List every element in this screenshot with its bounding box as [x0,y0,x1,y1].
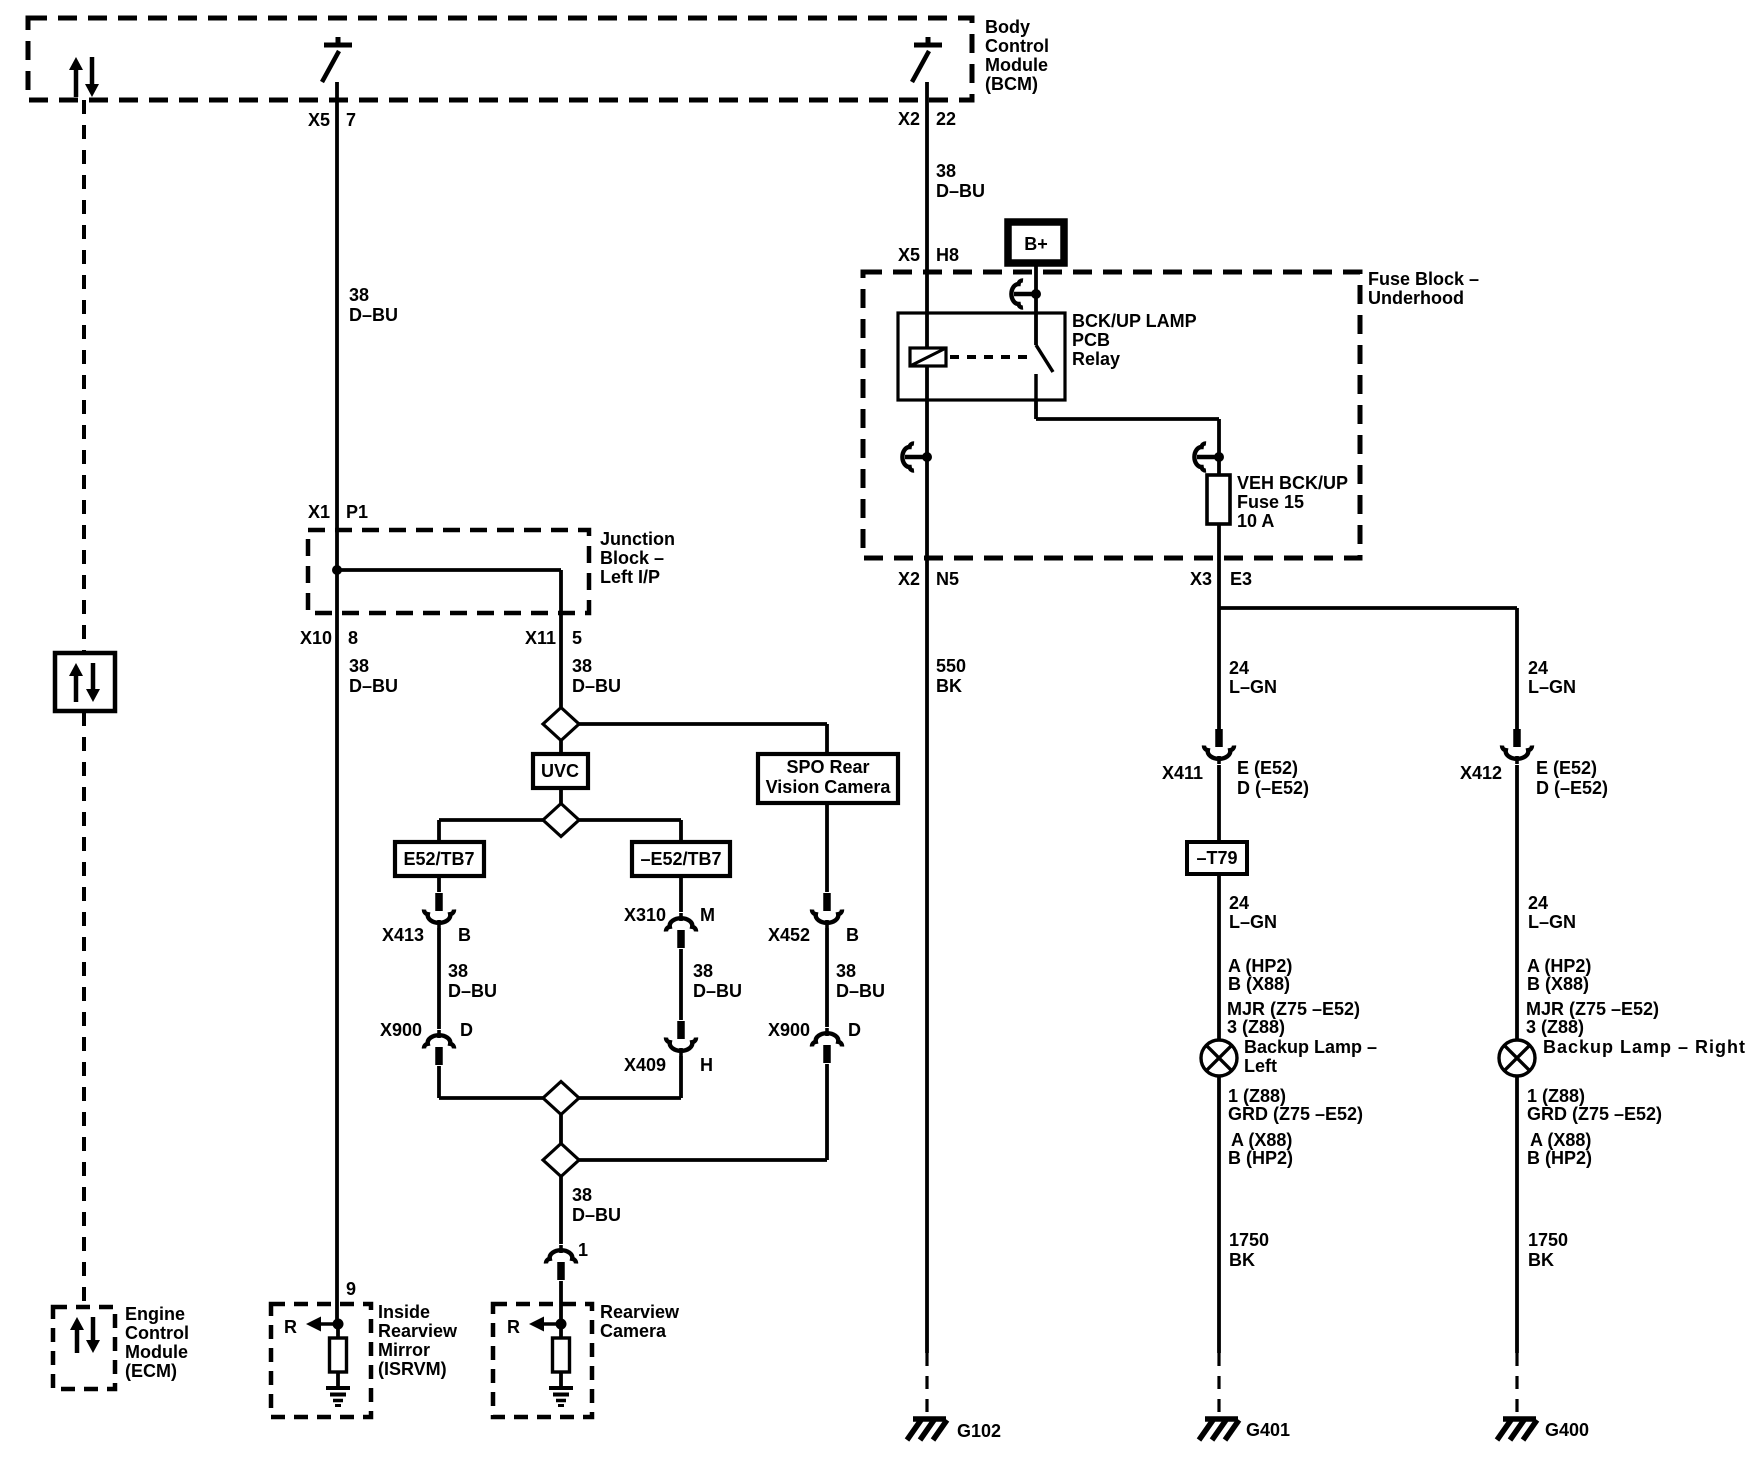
wire: X412 to right backup lamp [1515,765,1519,1040]
connector X411 [1204,729,1234,764]
wire: B+ into fuse block [1034,263,1038,345]
svg-text:D–BU: D–BU [836,981,885,1001]
svg-text:D–BU: D–BU [349,676,398,696]
svg-text:38: 38 [448,961,468,981]
pin label X900 | D (left) [380,1020,473,1040]
wire: S1 to UVC [559,740,563,754]
svg-text:BK: BK [1229,1250,1255,1270]
wire: left lamp to G401 [1217,1076,1221,1353]
svg-text:A (X88): A (X88) [1231,1130,1292,1150]
svg-text:B (X88): B (X88) [1527,974,1589,994]
svg-text:–E52/TB7: –E52/TB7 [640,849,721,869]
node: junction inside junction block [332,565,342,575]
label: Rearview Camera [600,1302,680,1341]
svg-text:Body: Body [985,17,1030,37]
svg-text:H: H [700,1055,713,1075]
switch: BCM driver (left, X5 pin 7) [322,37,352,82]
svg-text:SPO Rear: SPO Rear [786,757,869,777]
connector X412 [1502,729,1532,764]
svg-text:Camera: Camera [600,1321,667,1341]
wire: -T79 to left backup lamp [1217,874,1221,1040]
ground G400 [1497,1419,1537,1440]
svg-text:38: 38 [349,656,369,676]
wire label 24 L-GN (right lamp) [1528,658,1576,697]
svg-text:3 (Z88): 3 (Z88) [1526,1017,1584,1037]
svg-text:38: 38 [572,1185,592,1205]
svg-text:B+: B+ [1024,234,1048,254]
wire label 38 D-BU (X10 wire) [349,656,398,696]
svg-text:Inside: Inside [378,1302,430,1322]
svg-text:X2: X2 [898,109,920,129]
svg-text:3 (Z88): 3 (Z88) [1227,1017,1285,1037]
connector: relay output terminal to fuse 15 [1194,443,1224,470]
svg-text:L–GN: L–GN [1229,912,1277,932]
svg-text:X413: X413 [382,925,424,945]
svg-text:Underhood: Underhood [1368,288,1464,308]
label: Fuse Block - Underhood [1368,269,1479,308]
svg-text:Fuse 15: Fuse 15 [1237,492,1304,512]
pin labels A (HP2) B (X88) right [1527,956,1591,994]
arrow box on ECM link [55,653,115,711]
pin labels MJR (Z75 -E52) 3 (Z88) right [1526,999,1659,1037]
pin label X452 | B [768,925,859,945]
bidirectional arrows inside arrow box [69,663,100,702]
svg-text:550: 550 [936,656,966,676]
svg-text:GRD (Z75 –E52): GRD (Z75 –E52) [1527,1104,1662,1124]
svg-text:VEH BCK/UP: VEH BCK/UP [1237,473,1348,493]
relay coil-contact dashed link [950,355,1032,359]
svg-text:Control: Control [125,1323,189,1343]
svg-text:GRD (Z75 –E52): GRD (Z75 –E52) [1228,1104,1363,1124]
wire: X409 to splice S3 (right) [579,1056,681,1098]
wire: resistor to ground in camera [559,1372,563,1387]
svg-text:Rearview: Rearview [600,1302,680,1322]
svg-text:10 A: 10 A [1237,511,1274,531]
svg-text:Module: Module [125,1342,188,1362]
splice diamond S4 [543,1144,579,1177]
svg-text:B (X88): B (X88) [1228,974,1290,994]
pin labels A (X88) B (HP2) left [1228,1130,1293,1168]
svg-text:X10: X10 [300,628,332,648]
svg-text:E (E52): E (E52) [1237,758,1298,778]
wire label 24 L-GN (right) [1528,893,1576,932]
pin label X1 | P1 [308,502,368,522]
svg-text:M: M [700,905,715,925]
svg-text:BK: BK [1528,1250,1554,1270]
pin label X411 E (E52) / D (-E52) [1162,758,1309,798]
svg-text:A (HP2): A (HP2) [1527,956,1591,976]
svg-text:D–BU: D–BU [936,181,985,201]
svg-text:BCK/UP LAMP: BCK/UP LAMP [1072,311,1197,331]
bidirectional arrows symbol inside BCM [69,57,99,97]
svg-text:N5: N5 [936,569,959,589]
Junction Block - Left I/P dashed box [308,530,589,613]
connector X452 [812,893,842,928]
wire: BCM X5-7 output to ISRVM chain [335,82,339,1324]
wire: splice S1 to SPO camera [561,724,827,754]
svg-text:E3: E3 [1230,569,1252,589]
svg-text:B (HP2): B (HP2) [1228,1148,1293,1168]
BCK/UP LAMP PCB Relay box [898,313,1065,400]
wire: S3 to S4 [559,1114,563,1144]
earth ground in rearview camera [549,1388,573,1406]
connector: B+ terminal into fuse block [1011,280,1041,307]
svg-text:B: B [458,925,471,945]
pin label X2 | N5 [898,569,959,589]
pin label X409 | H [624,1055,713,1075]
label: VEH BCK/UP Fuse 15 10 A [1237,473,1348,531]
svg-text:Mirror: Mirror [378,1340,430,1360]
connector X413 [424,893,454,928]
label: Body Control Module (BCM) [985,17,1049,94]
dashed wire to G102 [925,1353,928,1412]
svg-text:22: 22 [936,109,956,129]
splice diamond S1 [543,708,579,741]
svg-text:L–GN: L–GN [1528,912,1576,932]
pin label X412 E (E52) / D (-E52) [1460,758,1608,798]
pin label X10 | 8 [300,628,358,648]
wire label 38 D-BU (left BCM wire) [349,285,398,325]
connector X900 (right) [812,1028,842,1063]
label: BCK/UP LAMP PCB Relay [1072,311,1197,369]
svg-text:X5: X5 [308,110,330,130]
wire: X900 to splice S3 (left) [439,1066,543,1098]
svg-text:L–GN: L–GN [1229,677,1277,697]
svg-text:D–BU: D–BU [693,981,742,1001]
svg-text:E (E52): E (E52) [1536,758,1597,778]
wire label 1750 BK (left) [1229,1230,1269,1270]
svg-text:PCB: PCB [1072,330,1110,350]
svg-text:(BCM): (BCM) [985,74,1038,94]
svg-text:Fuse Block –: Fuse Block – [1368,269,1479,289]
Fuse Block - Underhood dashed box [863,272,1360,558]
svg-text:MJR (Z75 –E52): MJR (Z75 –E52) [1526,999,1659,1019]
svg-text:1: 1 [578,1240,588,1260]
svg-text:Relay: Relay [1072,349,1120,369]
svg-text:5: 5 [572,628,582,648]
label: Engine Control Module (ECM) [125,1304,189,1381]
svg-text:G102: G102 [957,1421,1001,1441]
ground G102 [907,1419,947,1440]
svg-text:38: 38 [349,285,369,305]
pin label X3 | E3 [1190,569,1252,589]
svg-text:24: 24 [1229,658,1249,678]
R arrow node in rearview camera [507,1317,567,1338]
pin labels 1 (Z88) GRD (Z75 -E52) right [1527,1086,1662,1124]
svg-text:B (HP2): B (HP2) [1527,1148,1592,1168]
svg-text:X411: X411 [1162,763,1203,783]
svg-text:L–GN: L–GN [1528,677,1576,697]
Backup Lamp - Left (lamp symbol) [1201,1040,1237,1076]
wire label 24 L-GN (left, below T79) [1229,893,1277,932]
label: Junction Block - Left I/P [600,529,675,587]
svg-text:X1: X1 [308,502,330,522]
pin labels A (X88) B (HP2) right [1527,1130,1592,1168]
svg-text:(ECM): (ECM) [125,1361,177,1381]
svg-text:24: 24 [1528,893,1548,913]
wire label 550 BK [936,656,966,696]
svg-text:1750: 1750 [1229,1230,1269,1250]
svg-text:D–BU: D–BU [349,305,398,325]
wire: -E52/TB7 to X310 [679,876,683,912]
dashed wire to G400 [1515,1353,1518,1412]
connector X409 [666,1021,696,1056]
wire: E52/TB7 to X413 [437,876,441,892]
wire: branch to right backup lamp [1219,608,1517,731]
splice diamond S3 [543,1082,579,1115]
svg-text:38: 38 [836,961,856,981]
svg-text:A (X88): A (X88) [1530,1130,1591,1150]
svg-text:X900: X900 [380,1020,422,1040]
svg-text:D–BU: D–BU [572,676,621,696]
earth ground in ISRVM [326,1388,350,1406]
svg-text:Left: Left [1244,1056,1277,1076]
fuse 15 (VEH BCK/UP 10A) [1207,475,1230,524]
svg-text:9: 9 [346,1279,356,1299]
wire label 38 D-BU (X413 wire) [448,961,497,1001]
wire label 1750 BK (right) [1528,1230,1568,1270]
pin label X2 | 22 [898,109,956,129]
resistor in rearview camera [553,1338,570,1372]
svg-text:Junction: Junction [600,529,675,549]
svg-text:X3: X3 [1190,569,1212,589]
svg-text:24: 24 [1528,658,1548,678]
pin label X900 | D (right) [768,1020,861,1040]
R arrow node in ISRVM [284,1317,344,1338]
svg-text:Backup Lamp –: Backup Lamp – [1244,1037,1377,1057]
wire: into rearview camera [559,1281,563,1324]
svg-text:7: 7 [346,110,356,130]
wire: relay output to fuse 15 [1036,400,1219,475]
wire: X900 right chain to splice S4 [579,1064,827,1160]
svg-text:D: D [848,1020,861,1040]
Backup Lamp - Right (lamp symbol) [1499,1040,1535,1076]
wire: node to resistor in camera [559,1324,563,1340]
svg-text:X409: X409 [624,1055,666,1075]
wire: node to resistor in ISRVM [336,1324,340,1340]
Inside Rearview Mirror (ISRVM) dashed box [271,1304,371,1417]
wire: resistor to ground in ISRVM [336,1372,340,1387]
svg-text:1 (Z88): 1 (Z88) [1527,1086,1585,1106]
wire: junction block branch to X11 [337,570,561,707]
-E52/TB7 box [632,842,730,876]
B+ battery feed box [1008,222,1064,263]
connector X900 (left) [424,1030,454,1065]
ECM link dashed wire (left margin) [82,100,86,652]
svg-text:X452: X452 [768,925,810,945]
wire label 38 D-BU (camera wire) [572,1185,621,1225]
label: Backup Lamp - Left [1244,1037,1377,1076]
UVC box [533,754,588,788]
svg-text:38: 38 [572,656,592,676]
wire: UVC to splice S2 [559,788,563,804]
-T79 splice box [1187,842,1247,874]
pin labels MJR (Z75 -E52) 3 (Z88) left [1227,999,1360,1037]
wire: X411 to -T79 [1217,765,1221,842]
svg-text:H8: H8 [936,245,959,265]
svg-text:R: R [507,1317,520,1337]
svg-text:X900: X900 [768,1020,810,1040]
wire: SPO camera to X452 [825,803,829,892]
wire: S4 to rearview camera [559,1176,563,1244]
wire: X310 to X409 [679,949,683,1020]
svg-text:D (–E52): D (–E52) [1536,778,1608,798]
svg-text:Engine: Engine [125,1304,185,1324]
Rearview Camera dashed box [493,1304,592,1417]
Engine Control Module (ECM) dashed box [53,1307,115,1389]
svg-text:Module: Module [985,55,1048,75]
svg-text:D–BU: D–BU [448,981,497,1001]
svg-text:38: 38 [936,161,956,181]
svg-text:X11: X11 [525,628,556,648]
svg-text:BK: BK [936,676,962,696]
wire label 38 D-BU (right BCM wire) [936,161,985,201]
svg-text:–T79: –T79 [1196,848,1237,868]
Body Control Module (BCM) dashed box [28,18,972,100]
svg-text:Backup Lamp – Right: Backup Lamp – Right [1543,1037,1746,1057]
svg-text:X412: X412 [1460,763,1502,783]
pin labels A (HP2) B (X88) left [1228,956,1292,994]
svg-text:R: R [284,1317,297,1337]
pin label X5 | 7 [308,110,356,130]
wire label 38 D-BU (X452 wire) [836,961,885,1001]
wire: X452 to X900 (right) [825,928,829,1027]
svg-text:X310: X310 [624,905,666,925]
wire label 24 L-GN (left lamp) [1229,658,1277,697]
connector: BCM wire terminal in fuse block (X2/N5) [902,443,932,470]
splice diamond S2 [543,804,579,837]
connector pin 1 of rearview camera [546,1245,576,1280]
svg-text:Vision Camera: Vision Camera [766,777,892,797]
pin labels 1 (Z88) GRD (Z75 -E52) left [1228,1086,1363,1124]
svg-text:(ISRVM): (ISRVM) [378,1359,447,1379]
wire: right lamp to G400 [1515,1076,1519,1353]
svg-text:G400: G400 [1545,1420,1589,1440]
svg-text:P1: P1 [346,502,368,522]
label: Inside Rearview Mirror (ISRVM) [378,1302,458,1379]
switch: BCM driver (right, X2 pin 22) [912,37,942,82]
relay contact blade [1036,345,1053,400]
wire label 38 D-BU (X11 wire) [572,656,621,696]
wire: fuse 15 output X3/E3 [1217,524,1221,731]
dashed wire to G401 [1217,1353,1220,1412]
svg-text:D–BU: D–BU [572,1205,621,1225]
resistor in ISRVM [330,1338,347,1372]
svg-text:MJR (Z75 –E52): MJR (Z75 –E52) [1227,999,1360,1019]
svg-text:B: B [846,925,859,945]
svg-text:24: 24 [1229,893,1249,913]
wire: BCM X2-22 output to G102 [925,82,929,1353]
svg-text:D (–E52): D (–E52) [1237,778,1309,798]
pin label X413 | B [382,925,471,945]
ECM link dashed wire lower part [82,712,86,1306]
svg-text:X2: X2 [898,569,920,589]
svg-text:Left I/P: Left I/P [600,567,660,587]
svg-text:UVC: UVC [541,761,579,781]
svg-text:Rearview: Rearview [378,1321,458,1341]
bidirectional arrows inside ECM [70,1317,100,1353]
svg-text:Block –: Block – [600,548,664,568]
relay coil [910,348,946,366]
SPO Rear Vision Camera box [758,754,898,803]
pin label X5 | H8 [898,245,959,265]
connector X310 [666,913,696,948]
svg-text:1 (Z88): 1 (Z88) [1228,1086,1286,1106]
svg-text:38: 38 [693,961,713,981]
svg-text:E52/TB7: E52/TB7 [403,849,474,869]
svg-text:D: D [460,1020,473,1040]
E52/TB7 box [395,842,484,876]
svg-text:G401: G401 [1246,1420,1290,1440]
svg-text:1750: 1750 [1528,1230,1568,1250]
pin label X11 | 5 [525,628,582,648]
wire: X413 to X900 (left) [437,928,441,1029]
svg-text:Control: Control [985,36,1049,56]
ground G401 [1199,1419,1239,1440]
svg-text:A (HP2): A (HP2) [1228,956,1292,976]
wire label 38 D-BU (X310 wire) [693,961,742,1001]
svg-text:8: 8 [348,628,358,648]
pin label X310 | M [624,905,715,925]
wire: S2 to -E52/TB7 [579,820,681,842]
svg-text:X5: X5 [898,245,920,265]
wire: S2 to E52/TB7 [439,820,543,842]
